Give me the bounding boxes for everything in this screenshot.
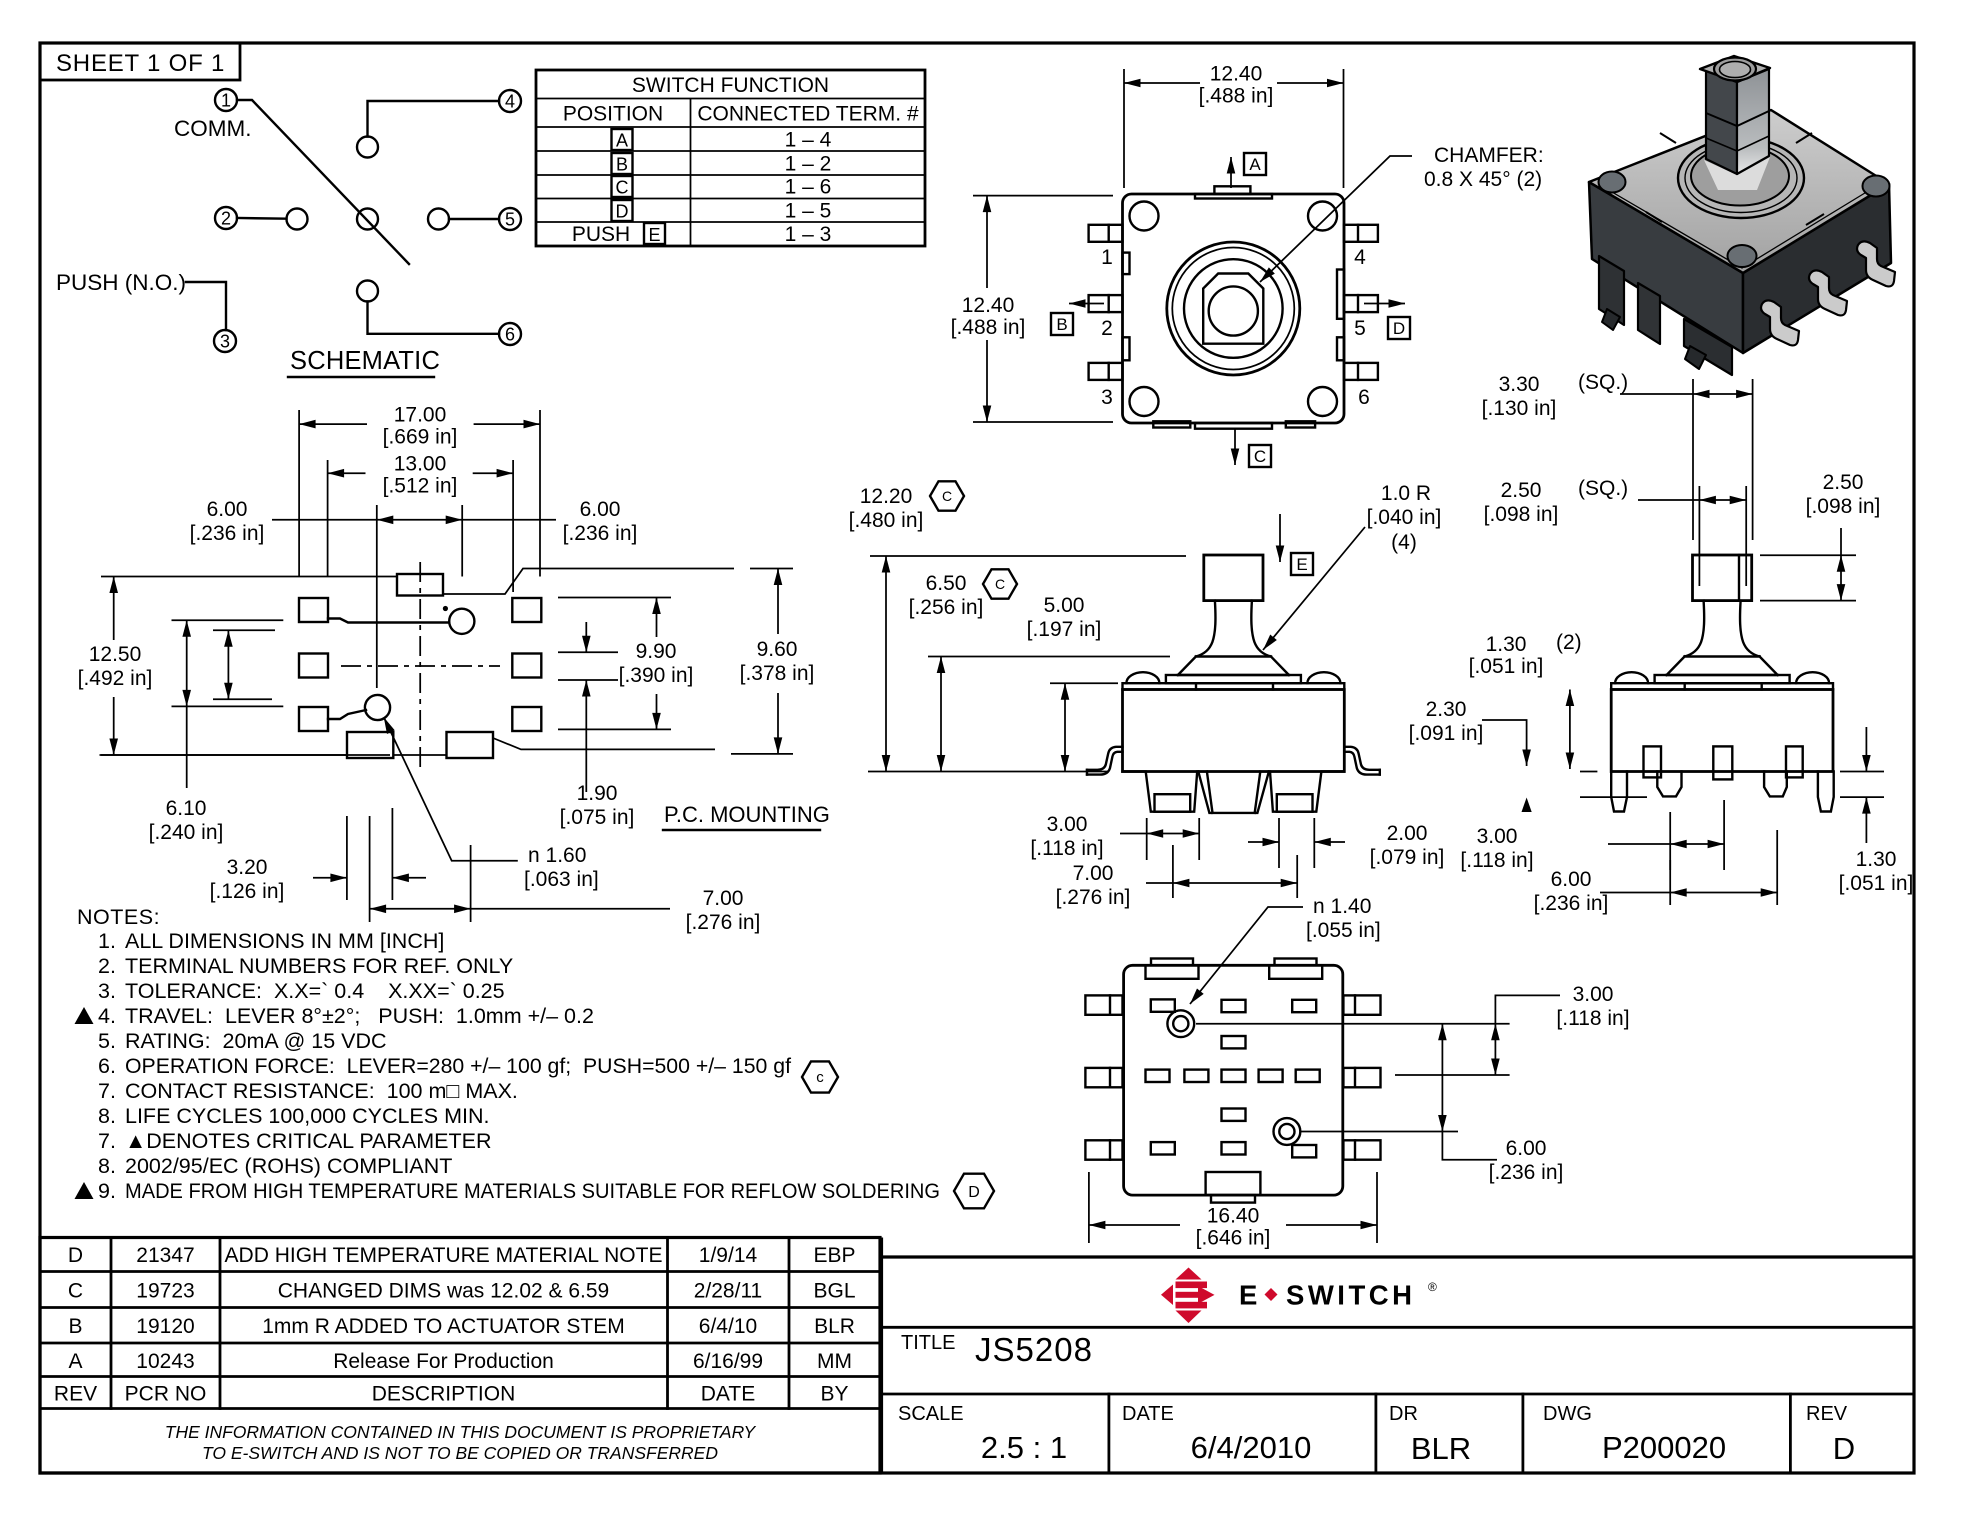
side view ext lines bottom left	[1580, 772, 1647, 798]
title label and value	[901, 1331, 1093, 1368]
3D isometric switch: body left face	[1589, 182, 1743, 353]
svg-text:1mm R ADDED TO ACTUATOR STEM: 1mm R ADDED TO ACTUATOR STEM	[262, 1315, 625, 1338]
svg-text:COMM.: COMM.	[174, 116, 252, 141]
svg-text:6.00: 6.00	[1506, 1137, 1547, 1160]
front view dimension 2.00	[1248, 818, 1444, 869]
table row PUSH E	[572, 223, 832, 246]
front view: dome bumps on cover	[1126, 672, 1340, 683]
pc mounting: six terminal pads	[299, 598, 541, 731]
svg-text:P200020: P200020	[1602, 1430, 1726, 1465]
table row position C	[612, 176, 832, 199]
scale cell	[898, 1403, 1067, 1465]
side view: terminal rects on body bottom	[1644, 746, 1803, 779]
pc mounting dimension 6.10	[149, 620, 284, 844]
svg-text:6.50: 6.50	[926, 572, 967, 595]
pc mounting dimension 9.90	[558, 598, 693, 730]
top view: bottom edge tabs	[1153, 421, 1315, 428]
svg-text:CONNECTED TERM. #: CONNECTED TERM. #	[697, 103, 919, 126]
svg-text:TERMINAL NUMBERS FOR REF. ONLY: TERMINAL NUMBERS FOR REF. ONLY	[125, 954, 513, 978]
svg-text:4: 4	[1354, 246, 1366, 269]
svg-text:[.051 in]: [.051 in]	[1469, 655, 1544, 678]
svg-text:6/4/10: 6/4/10	[699, 1315, 757, 1338]
svg-text:BY: BY	[820, 1383, 848, 1406]
svg-text:REV: REV	[54, 1383, 97, 1406]
svg-text:D: D	[616, 202, 629, 222]
bottom view: hole 1	[1167, 1010, 1194, 1037]
note 7. ▲DENOTES CRITICAL PARAMETE	[98, 1129, 492, 1153]
pc mounting dimension 7.00	[370, 816, 761, 934]
svg-text:C: C	[995, 576, 1005, 592]
side view dimension 3.30 SQ	[1482, 371, 1753, 540]
pc mounting: top solder pad	[397, 574, 443, 596]
note 1. ALL DIMENSIONS IN MM [INCH	[98, 929, 444, 953]
top view: direction arrow B	[1069, 303, 1104, 305]
svg-text:19723: 19723	[136, 1280, 194, 1303]
top view: pin number 3	[1101, 386, 1113, 409]
svg-text:B: B	[1056, 315, 1067, 334]
3D isometric switch: stem cap top with hole	[1700, 56, 1770, 82]
bottom view: side pins left	[1085, 995, 1122, 1159]
svg-text:1: 1	[221, 91, 231, 111]
svg-text:[.390 in]: [.390 in]	[619, 664, 694, 687]
revision row A	[68, 1350, 852, 1373]
svg-text:12.40: 12.40	[962, 294, 1015, 317]
svg-text:DATE: DATE	[701, 1383, 755, 1406]
front view: gull-wing lead right	[1344, 747, 1380, 775]
svg-text:4.: 4.	[98, 1004, 116, 1028]
notes heading	[77, 905, 160, 929]
pc mounting: center lines	[341, 562, 500, 768]
svg-text:[.130 in]: [.130 in]	[1482, 397, 1557, 420]
svg-text:[.118 in]: [.118 in]	[1460, 849, 1533, 872]
svg-text:6.00: 6.00	[580, 498, 621, 521]
svg-text:16.40: 16.40	[1207, 1205, 1260, 1228]
svg-text:MM: MM	[817, 1350, 852, 1373]
schematic: wire contact to terminal 6	[368, 302, 500, 334]
svg-text:DESCRIPTION: DESCRIPTION	[372, 1383, 516, 1406]
front view: gull-wing lead left	[1087, 747, 1123, 775]
proprietary notice	[165, 1422, 757, 1463]
svg-text:2.: 2.	[98, 954, 116, 978]
svg-text:7.: 7.	[98, 1079, 116, 1103]
svg-text:6/4/2010: 6/4/2010	[1191, 1430, 1312, 1465]
svg-text:[.646 in]: [.646 in]	[1196, 1227, 1271, 1250]
top view: pin number 2	[1101, 317, 1113, 340]
svg-text:[.040 in]: [.040 in]	[1367, 506, 1442, 529]
svg-text:5.: 5.	[98, 1029, 116, 1053]
svg-text:12.20: 12.20	[860, 485, 913, 508]
schematic: wire contact to terminal 5	[449, 218, 499, 220]
side view dimension 2.30	[1409, 698, 1527, 766]
svg-text:6: 6	[1358, 386, 1370, 409]
bottom view: internal terminal slots	[1146, 999, 1320, 1157]
schematic label COMM.	[174, 116, 252, 141]
pc mounting: outline bottom	[101, 738, 715, 755]
schematic terminal 4	[499, 90, 521, 112]
schematic: wire from terminal 1 (common pole diagonal)	[237, 100, 409, 264]
side view dimension 2.50 SQ	[1484, 477, 1747, 586]
svg-text:[.091 in]: [.091 in]	[1409, 722, 1484, 745]
svg-text:C: C	[942, 488, 952, 504]
pc mounting dimension 13.00	[328, 453, 513, 592]
front view: body	[1123, 690, 1345, 772]
top view dimension 12.40 vertical	[951, 196, 1113, 422]
svg-text:[.276 in]: [.276 in]	[1056, 886, 1131, 909]
side view: dome bumps on cover	[1615, 672, 1829, 683]
svg-text:2.5 : 1: 2.5 : 1	[981, 1430, 1067, 1465]
schematic contact node right of pole	[428, 209, 449, 230]
svg-text:(4): (4)	[1391, 531, 1417, 554]
pc mounting dimension 1.90	[558, 622, 634, 829]
svg-text:ADD HIGH TEMPERATURE MATERIAL: ADD HIGH TEMPERATURE MATERIAL NOTE	[225, 1244, 663, 1267]
svg-text:E: E	[648, 225, 660, 245]
schematic pole contact node (center)	[357, 209, 378, 230]
e-switch logo text	[1239, 1280, 1437, 1311]
front view hexagon C for 12.20	[930, 481, 964, 510]
pc mounting dimension 9.60	[731, 569, 814, 754]
revision table	[40, 1238, 880, 1474]
schematic: wire terminal 2 to contact	[237, 217, 287, 220]
svg-text:1 – 3: 1 – 3	[785, 223, 832, 246]
svg-text:[.236 in]: [.236 in]	[563, 522, 638, 545]
side view: round-tip pins below body	[1657, 772, 1787, 797]
svg-text:B: B	[616, 155, 628, 175]
revision row REV	[54, 1383, 849, 1406]
top view: edge slots	[1123, 253, 1345, 361]
svg-text:[.118 in]: [.118 in]	[1556, 1007, 1629, 1030]
sheet number box	[40, 43, 240, 80]
svg-text:9.90: 9.90	[636, 640, 677, 663]
note hexagon C	[802, 1061, 838, 1092]
svg-text:1.30: 1.30	[1486, 633, 1527, 656]
svg-text:SCALE: SCALE	[898, 1403, 964, 1425]
svg-text:(SQ.): (SQ.)	[1578, 371, 1628, 394]
svg-text:1.30: 1.30	[1856, 848, 1897, 871]
svg-text:[.098 in]: [.098 in]	[1806, 495, 1881, 518]
3D isometric switch: gull-wing legs right side	[1761, 241, 1895, 345]
svg-text:6.10: 6.10	[166, 797, 207, 820]
svg-text:PUSH: PUSH	[572, 223, 630, 246]
svg-text:[.118 in]: [.118 in]	[1030, 837, 1103, 860]
svg-text:1/9/14: 1/9/14	[699, 1244, 758, 1267]
3D isometric switch: stem band lines	[1706, 111, 1769, 151]
svg-text:1 – 4: 1 – 4	[785, 129, 832, 152]
schematic contact node below 4	[357, 137, 378, 158]
svg-text:3: 3	[1101, 386, 1113, 409]
schematic terminal 2	[215, 207, 237, 229]
bottom view: hole 2	[1274, 1118, 1301, 1145]
svg-text:3.30: 3.30	[1499, 373, 1540, 396]
svg-text:[.240 in]: [.240 in]	[149, 821, 224, 844]
svg-text:TRAVEL: LEVER 8°±2°; PUSH:: TRAVEL: LEVER 8°±2°; PUSH: 1.0mm +/– 0.2	[125, 1004, 594, 1028]
svg-text:A: A	[1249, 155, 1261, 174]
svg-text:[.378 in]: [.378 in]	[740, 662, 815, 685]
svg-text:[.098 in]: [.098 in]	[1484, 503, 1559, 526]
svg-text:6.: 6.	[98, 1054, 116, 1078]
pc mounting: hole 1	[443, 606, 475, 634]
svg-text:(SQ.): (SQ.)	[1578, 477, 1628, 500]
svg-text:1 – 5: 1 – 5	[785, 200, 832, 223]
svg-text:6: 6	[505, 325, 515, 345]
side view: cover band	[1611, 683, 1833, 689]
front view dimension 6.50	[909, 572, 1170, 772]
side view: actuator stem neck	[1685, 601, 1760, 657]
dwg cell	[1543, 1403, 1726, 1465]
svg-text:13.00: 13.00	[394, 453, 447, 476]
pc mounting: hole 2	[365, 695, 390, 720]
callout diameter 1.40	[1190, 895, 1381, 1004]
top view: pin number 6	[1358, 386, 1370, 409]
top view: stem center circle	[1209, 286, 1258, 335]
schematic title	[288, 347, 440, 377]
svg-text:12.40: 12.40	[1210, 63, 1263, 86]
schematic label PUSH (N.O.)	[56, 270, 186, 295]
svg-text:OPERATION FORCE: LEVER=280 +/: OPERATION FORCE: LEVER=280 +/– 100 gf; P…	[125, 1054, 791, 1078]
svg-text:POSITION: POSITION	[563, 103, 663, 126]
pc mounting inner vertical dim	[213, 630, 275, 699]
svg-text:0.8 X 45° (2): 0.8 X 45° (2)	[1424, 168, 1542, 191]
svg-text:n 1.60: n 1.60	[528, 844, 586, 867]
pc mounting: trace to hole 2	[328, 710, 366, 719]
schematic terminal 5	[499, 208, 521, 230]
top view dimension 12.40 horizontal	[1124, 63, 1344, 189]
svg-text:DR: DR	[1389, 1403, 1418, 1425]
note hexagon D	[954, 1174, 994, 1209]
top view: pin number 5	[1354, 317, 1366, 340]
bottom view: side pins right	[1343, 995, 1380, 1159]
top view: direction label B	[1051, 313, 1073, 335]
svg-text:[.256 in]: [.256 in]	[909, 596, 984, 619]
table row position D	[612, 200, 832, 223]
svg-text:2.30: 2.30	[1426, 698, 1467, 721]
rev cell	[1806, 1403, 1855, 1466]
svg-text:CONTACT RESISTANCE: 100 m□ MA: CONTACT RESISTANCE: 100 m□ MAX.	[125, 1079, 518, 1103]
svg-text:[.236 in]: [.236 in]	[1534, 892, 1609, 915]
svg-text:C: C	[1254, 447, 1266, 466]
date cell	[1122, 1403, 1311, 1465]
front view: cover band	[1123, 683, 1345, 689]
svg-text:C: C	[68, 1280, 83, 1303]
svg-text:TITLE: TITLE	[901, 1332, 955, 1354]
svg-text:®: ®	[1428, 1280, 1437, 1294]
svg-text:[.055 in]: [.055 in]	[1306, 919, 1381, 942]
side view: actuator cap	[1693, 555, 1752, 601]
svg-text:[.488 in]: [.488 in]	[1199, 85, 1274, 108]
schematic contact node left of pole	[287, 209, 308, 230]
svg-text:SHEET 1 OF 1: SHEET 1 OF 1	[56, 50, 225, 77]
svg-text:c: c	[816, 1069, 824, 1086]
svg-text:[.079 in]: [.079 in]	[1370, 846, 1445, 869]
top view: top edge tab	[1195, 186, 1272, 198]
pc mounting dimension 3.20	[210, 808, 426, 903]
svg-text:TO E-SWITCH AND IS NOT TO BE C: TO E-SWITCH AND IS NOT TO BE COPIED OR T…	[202, 1443, 718, 1463]
svg-text:EBP: EBP	[813, 1244, 855, 1267]
top view: direction arrow C	[1234, 429, 1236, 465]
svg-text:[.126 in]: [.126 in]	[210, 880, 285, 903]
svg-text:2/28/11: 2/28/11	[694, 1280, 763, 1303]
front view: base plate	[1166, 675, 1301, 683]
front view dimension 12.20	[849, 485, 1186, 772]
front view: label E	[1291, 553, 1313, 575]
note 3. TOLERANCE:&#160; X.X=` 0.4	[98, 979, 505, 1003]
svg-text:7.: 7.	[98, 1129, 116, 1153]
schematic terminal 3	[214, 330, 236, 352]
svg-text:8.: 8.	[98, 1154, 116, 1178]
3D isometric switch: stem flare highlight	[1704, 157, 1770, 190]
schematic: wire terminal 4 to pole contact	[368, 101, 500, 137]
top view: terminal pins right (4,5,6)	[1344, 225, 1378, 380]
svg-text:[.063 in]: [.063 in]	[524, 868, 599, 891]
svg-text:PUSH (N.O.): PUSH (N.O.)	[56, 270, 186, 295]
svg-text:D: D	[68, 1244, 83, 1267]
front view dimension 5.00	[1027, 594, 1118, 772]
pc mounting: bottom solder pads	[347, 732, 493, 758]
svg-text:NOTES:: NOTES:	[77, 905, 160, 929]
svg-text:CHANGED DIMS was 12.02 & 6.59: CHANGED DIMS was 12.02 & 6.59	[278, 1280, 609, 1303]
svg-text:4: 4	[505, 92, 515, 112]
svg-text:3.: 3.	[98, 979, 116, 1003]
pc mounting callout diameter 1.60	[384, 717, 599, 891]
side view dimension 3.00 pin pitch	[1608, 800, 1724, 870]
svg-text:A: A	[68, 1350, 82, 1373]
svg-text:A: A	[616, 131, 628, 151]
top view: direction label D	[1388, 317, 1410, 339]
svg-text:9.: 9.	[98, 1179, 116, 1203]
side view dimension 2.50 height	[1760, 471, 1880, 601]
svg-text:5: 5	[1354, 317, 1366, 340]
front view callout 1.0 R (4)	[1263, 482, 1441, 650]
note 8. 2002/95/EC (ROHS) COMPLIAN	[98, 1154, 452, 1178]
svg-text:1 – 6: 1 – 6	[785, 176, 832, 199]
svg-text:P.C. MOUNTING: P.C. MOUNTING	[664, 802, 830, 827]
front view: actuator cap	[1204, 555, 1263, 601]
svg-text:BLR: BLR	[1411, 1431, 1471, 1466]
side view: actuator skirt	[1667, 657, 1778, 676]
3D isometric switch: top face	[1589, 110, 1889, 273]
note 7. CONTACT RESISTANCE:&#160;	[98, 1079, 518, 1103]
schematic: wire PUSH label to terminal 3	[186, 282, 226, 330]
top view: switch body outline	[1123, 194, 1345, 423]
3D isometric switch: stem shaft right face	[1737, 69, 1769, 174]
svg-text:C: C	[616, 178, 629, 198]
front view: actuator skirt	[1178, 657, 1289, 676]
side view dimension 1.30 pin	[1839, 727, 1914, 895]
svg-text:2.50: 2.50	[1501, 479, 1542, 502]
svg-text:RATING: 20mA @ 15 VDC: RATING: 20mA @ 15 VDC	[125, 1029, 387, 1053]
pc mounting: trace to hole 1	[328, 619, 449, 623]
bottom view dimension 16.40	[1089, 1172, 1377, 1250]
front view: bottom profile with pads	[1123, 772, 1345, 813]
svg-text:1: 1	[1101, 246, 1113, 269]
bottom view dimension 3.00	[1196, 983, 1630, 1075]
title block grid	[882, 1238, 1915, 1474]
top view: direction label A	[1244, 153, 1266, 175]
schematic terminal 6	[499, 323, 521, 345]
top view: direction arrow D	[1364, 303, 1405, 305]
svg-text:5.00: 5.00	[1044, 594, 1085, 617]
svg-text:[.492 in]: [.492 in]	[78, 667, 153, 690]
svg-text:BLR: BLR	[814, 1315, 855, 1338]
front view hexagon C for 6.50	[983, 569, 1017, 598]
svg-text:3.00: 3.00	[1047, 813, 1088, 836]
svg-text:[.276 in]: [.276 in]	[686, 911, 761, 934]
3D isometric switch: central boss	[1678, 138, 1804, 218]
dr cell	[1389, 1403, 1471, 1466]
svg-text:17.00: 17.00	[394, 404, 447, 427]
bottom view: body outline	[1124, 965, 1343, 1195]
top view: pin number 4	[1354, 246, 1366, 269]
pc mounting dimension 12.50	[78, 577, 390, 756]
3D isometric switch: stem shaft left face	[1706, 70, 1737, 174]
bottom view: top mounting tabs	[1146, 959, 1323, 979]
svg-text:3.00: 3.00	[1477, 825, 1518, 848]
note 8. LIFE CYCLES 100,000 CYCLES	[98, 1104, 489, 1128]
3D isometric switch: bottom tabs/feet	[1599, 256, 1732, 375]
svg-text:[.480 in]: [.480 in]	[849, 509, 924, 532]
side view dimension 1.30 (2) cover	[1469, 631, 1582, 769]
pc mounting: outline top	[101, 569, 734, 595]
top view: pin number 1	[1101, 246, 1113, 269]
svg-text:6.00: 6.00	[207, 498, 248, 521]
top view: terminal pins left (1,2,3)	[1089, 225, 1123, 380]
top view: central actuator rings	[1167, 242, 1300, 375]
svg-text:2002/95/EC (ROHS) COMPLIANT: 2002/95/EC (ROHS) COMPLIANT	[125, 1154, 452, 1178]
note 2. TERMINAL NUMBERS FOR REF.	[98, 954, 513, 978]
svg-text:21347: 21347	[136, 1244, 194, 1267]
top view: direction label C	[1249, 445, 1271, 467]
svg-text:DWG: DWG	[1543, 1403, 1592, 1425]
svg-text:7.00: 7.00	[1073, 862, 1114, 885]
schematic contact node above 6	[357, 281, 378, 302]
front view: push direction arrow E	[1279, 514, 1281, 562]
side view: base plate	[1655, 675, 1790, 683]
svg-text:1.0 R: 1.0 R	[1381, 482, 1431, 505]
svg-text:SWITCH: SWITCH	[1286, 1280, 1415, 1311]
svg-text:D: D	[968, 1184, 980, 1201]
svg-text:LIFE CYCLES 100,000 CYCLES MIN: LIFE CYCLES 100,000 CYCLES MIN.	[125, 1104, 489, 1128]
svg-text:E: E	[1239, 1280, 1261, 1311]
revision row D	[68, 1244, 856, 1267]
top view: corner rivet circles	[1130, 202, 1338, 417]
svg-text:8.: 8.	[98, 1104, 116, 1128]
svg-text:SWITCH FUNCTION: SWITCH FUNCTION	[632, 74, 829, 97]
svg-text:6.00: 6.00	[1551, 868, 1592, 891]
svg-text:1.: 1.	[98, 929, 116, 953]
svg-text:B: B	[68, 1315, 82, 1338]
revision row C	[68, 1280, 856, 1303]
pc mounting dimension 6.00 pair	[190, 498, 638, 688]
svg-text:[.051 in]: [.051 in]	[1839, 872, 1914, 895]
3D isometric switch: body right face	[1743, 184, 1891, 353]
side view: body	[1611, 690, 1833, 772]
note 9. MADE FROM HIGH TEMPERATURE	[75, 1179, 941, 1203]
svg-text:REV: REV	[1806, 1403, 1848, 1425]
e-switch logo icon	[1161, 1268, 1215, 1324]
side view: cap inner edge line	[1738, 555, 1740, 601]
schematic terminal 1	[215, 89, 237, 111]
side view critical triangle 3.00	[1460, 798, 1533, 873]
svg-text:PCR NO: PCR NO	[125, 1383, 207, 1406]
svg-text:[.197 in]: [.197 in]	[1027, 618, 1102, 641]
table row position A	[612, 129, 832, 152]
side view: outer tapered legs	[1611, 772, 1834, 812]
svg-text:[.512 in]: [.512 in]	[383, 475, 458, 498]
svg-text:BGL: BGL	[813, 1280, 855, 1303]
front view dimension 3.00	[1030, 813, 1199, 860]
top view: chamfered square stem	[1203, 274, 1263, 344]
note 4. TRAVEL:&#160; LEVER 8°±2°;	[75, 1004, 594, 1028]
svg-text:7.00: 7.00	[703, 887, 744, 910]
